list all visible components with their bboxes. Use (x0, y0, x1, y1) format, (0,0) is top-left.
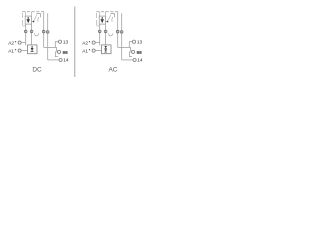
wire A2 to input box (21, 50, 27, 52)
contact arc wire (38, 17, 39, 22)
relay K1 enclosure left edge (21, 13, 23, 26)
pin 2 wire (31, 24, 33, 45)
svg-text:13: 13 (137, 40, 143, 46)
node pivot dot (33, 21, 35, 23)
terminal A2 polarity mark (15, 49, 16, 50)
contact fixed bracket (111, 14, 115, 18)
wire rail A hook to middle terminal (130, 47, 133, 50)
terminal 14 circle (59, 58, 62, 61)
node pivot dot (107, 21, 109, 23)
terminal 13 circle (132, 40, 135, 43)
svg-text:98: 98 (63, 50, 69, 55)
terminal mid circle (58, 50, 61, 53)
wire terminal 13 branch (55, 42, 58, 48)
wire coil to pivot node (31, 21, 32, 23)
divider line (74, 7, 76, 78)
contact arc wire (112, 17, 113, 22)
svg-text:14: 14 (63, 58, 69, 64)
input rectifier symbol (104, 46, 107, 48)
pin 4 wire (121, 13, 123, 60)
terminal A1 circle (92, 41, 95, 44)
svg-text:A2: A2 (8, 40, 14, 45)
coil K2 box (99, 16, 105, 24)
relay K2 enclosure dashed top edge (96, 11, 119, 13)
pin 2 socket circle (104, 30, 107, 33)
crossover loop wire (35, 33, 39, 36)
pin 3 wire (43, 12, 45, 47)
pin 4 socket circle (120, 31, 123, 34)
terminal A2 circle (92, 49, 95, 52)
pin 3 socket circle (42, 30, 45, 33)
coil K1 top leads (25, 12, 27, 16)
pin 3 wire (117, 12, 119, 47)
pin 1 wire (99, 24, 101, 45)
wire pin3 to rail A (118, 46, 131, 48)
wire coil to pivot node (105, 21, 106, 23)
terminal A2 circle (18, 49, 21, 52)
svg-text:13: 13 (63, 40, 69, 46)
wire A1 to pin1 (21, 42, 25, 44)
svg-text:A2: A2 (82, 40, 88, 45)
input circuit box (102, 45, 112, 54)
wire pin3 to rail A (44, 46, 57, 48)
svg-text:14: 14 (137, 58, 143, 64)
wire A1 to pin1 (95, 42, 99, 44)
terminal 13 circle (58, 40, 61, 43)
wire terminal 13 branch (129, 42, 132, 48)
relay K2 enclosure left edge (95, 13, 97, 26)
terminal A1 polarity mark (15, 41, 16, 42)
wire rail B (48, 59, 59, 61)
pin 2 wire (105, 24, 107, 45)
wire A2 to input box (95, 50, 101, 52)
wire rail B (122, 59, 133, 61)
pin 4 wire (47, 13, 49, 60)
coil K2 top leads (99, 12, 101, 16)
relay K1 enclosure bottom-left stub (22, 25, 25, 27)
coil LED arrow (27, 17, 29, 19)
crossover loop wire (109, 33, 113, 36)
input circuit box (28, 45, 38, 54)
terminal A1 circle (18, 41, 21, 44)
terminal A1 polarity mark (89, 41, 90, 42)
svg-text:AC: AC (108, 66, 117, 73)
contact lever (108, 15, 111, 21)
svg-text:A1: A1 (82, 48, 88, 53)
contact lever (34, 15, 37, 21)
terminal 14 circle (133, 58, 136, 61)
svg-text:98: 98 (137, 50, 143, 55)
pin 1 wire (25, 24, 27, 45)
input diode symbol (31, 46, 33, 48)
terminal mid circle (132, 50, 135, 53)
pin 1 socket circle (24, 30, 27, 33)
pin 4 socket circle (46, 31, 49, 34)
relay K1 enclosure dashed top edge (22, 11, 45, 13)
svg-text:DC: DC (32, 66, 42, 73)
wire middle terminal bracket (129, 52, 132, 57)
svg-text:A1: A1 (8, 48, 14, 53)
pin 3 socket circle (116, 30, 119, 33)
pin 1 socket circle (98, 30, 101, 33)
wire rail A hook to middle terminal (56, 47, 59, 50)
wire middle terminal bracket (55, 52, 58, 57)
terminal A2 polarity mark (89, 49, 90, 50)
coil K1 box (25, 16, 31, 24)
relay K2 enclosure bottom-left stub (96, 25, 99, 27)
contact fixed bracket (37, 14, 41, 18)
coil LED arrow (101, 17, 103, 19)
pin 2 socket circle (30, 30, 33, 33)
